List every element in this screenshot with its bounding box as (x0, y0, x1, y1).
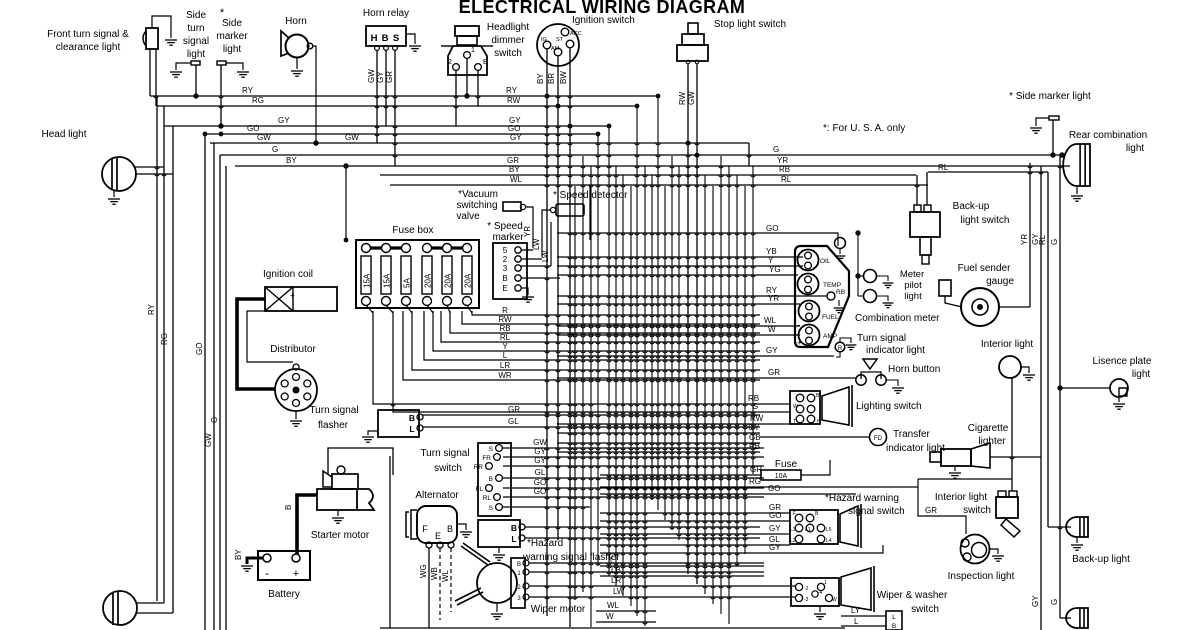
wire GR from flasher (423, 414, 760, 416)
svg-text:L1: L1 (805, 527, 811, 533)
svg-text:B: B (483, 59, 488, 66)
svg-text:flasher: flasher (318, 420, 349, 431)
svg-text:GY: GY (510, 133, 522, 142)
ground turn signal flasher (362, 437, 374, 442)
ground hazard flasher (498, 547, 500, 553)
svg-text:RG: RG (749, 477, 761, 486)
svg-text:GY: GY (1031, 595, 1040, 607)
svg-text:WB: WB (430, 567, 439, 580)
wiper motor (477, 563, 517, 603)
wire L (600, 565, 764, 567)
svg-text:Inspection light: Inspection light (948, 571, 1015, 582)
svg-text:GO: GO (766, 224, 778, 233)
svg-text:1: 1 (517, 571, 521, 577)
wire ignition BY (546, 49, 548, 616)
svg-text:RR: RR (474, 464, 484, 471)
svg-text:GO: GO (195, 343, 204, 355)
svg-text:GY: GY (278, 116, 290, 125)
wire RG (600, 486, 918, 488)
wire battery minus to ground (thick) (247, 558, 263, 564)
back-up light (1066, 517, 1088, 537)
wire G to lighting switch (600, 411, 790, 413)
wire W to amp gauge (557, 334, 800, 336)
wire rear side marker to ground (1036, 118, 1049, 126)
svg-text:GW: GW (345, 133, 359, 142)
svg-text:Cigarette: Cigarette (968, 423, 1009, 434)
wire G vertical right (1059, 155, 1061, 618)
wire vertical (608, 126, 610, 576)
wire head light feeds (135, 166, 164, 168)
wire G vertical 2 (225, 166, 227, 630)
wire dimmer pin2 (455, 70, 457, 126)
svg-text:GR: GR (508, 405, 520, 414)
ground distributor (295, 411, 297, 419)
rear combination light (top) (1063, 144, 1090, 186)
wire cigarette lighter (990, 456, 1041, 458)
svg-text:RB: RB (499, 324, 510, 333)
wire Y to oil gauge (557, 265, 803, 267)
wire side turn signal to ground (176, 63, 191, 70)
svg-text:warning signal flasher: warning signal flasher (522, 552, 620, 563)
wire vertical (712, 186, 714, 604)
ground cigarette lighter (954, 466, 956, 471)
svg-text:B: B (517, 562, 521, 568)
fuse terminal top 6 (463, 244, 472, 253)
svg-text:BW: BW (559, 71, 568, 84)
svg-text:GL: GL (535, 468, 546, 477)
wire YR to fuel gauge (557, 303, 800, 305)
svg-text:gauge: gauge (986, 276, 1014, 287)
head light (left) (102, 157, 136, 191)
svg-text:Combination meter: Combination meter (855, 313, 940, 324)
wire vertical (644, 166, 646, 626)
wiper motor lever 2 (455, 588, 481, 601)
wire speed marker pin3 stub (521, 265, 551, 267)
fuse 15A #1 (361, 256, 371, 294)
svg-text:clearance light: clearance light (56, 42, 121, 53)
svg-text:L3: L3 (790, 527, 796, 533)
svg-text:*Hazard warning: *Hazard warning (825, 493, 899, 504)
fuse terminal top 5 (443, 244, 452, 253)
crossing hops (154, 96, 1062, 624)
wire horn relay S (GR) (394, 50, 396, 166)
ground rear side marker (1030, 128, 1042, 133)
wire GB (557, 442, 760, 444)
svg-text:valve: valve (456, 211, 480, 222)
wire horn relay B (GY) (385, 50, 387, 126)
svg-text:BR: BR (547, 73, 556, 84)
wire GO from turn signal switch (503, 496, 764, 498)
svg-text:BY: BY (536, 73, 545, 84)
svg-text:WL: WL (764, 316, 777, 325)
svg-text:GW: GW (533, 438, 547, 447)
svg-text:G: G (1050, 239, 1059, 245)
wiper washer switch knob (841, 568, 871, 610)
svg-text:GO: GO (769, 511, 781, 520)
svg-text:light: light (1126, 143, 1145, 154)
svg-text:Side: Side (186, 10, 206, 21)
wire alternator B to ground (457, 524, 466, 530)
svg-text:F: F (422, 524, 428, 534)
wire turn signal switch pin S2 (503, 506, 590, 508)
wire WL to amp gauge (557, 325, 800, 327)
svg-text:RB: RB (836, 289, 845, 296)
svg-text:+: + (293, 568, 299, 580)
wire bus GW/GY (210, 142, 749, 144)
lisence plate light (1110, 379, 1128, 397)
lighting switch knob (822, 387, 849, 425)
svg-text:GY: GY (748, 423, 760, 432)
svg-text:L: L (503, 351, 508, 360)
wire GO vertical (204, 134, 206, 630)
svg-text:RL: RL (938, 163, 949, 172)
svg-text:20A: 20A (463, 273, 472, 288)
svg-text:E: E (435, 531, 441, 541)
wire WG from alternator (428, 548, 430, 628)
wire horn relay to ground (406, 34, 415, 44)
wire battery to ignition coil (thick) (237, 299, 275, 389)
inspection light (961, 535, 990, 564)
svg-text:RY: RY (506, 86, 518, 95)
wire LR from fuse box (412, 311, 760, 370)
svg-text:switch: switch (963, 505, 991, 516)
svg-text:E: E (502, 284, 507, 293)
wire GR to fuse (600, 474, 761, 476)
speed marker (493, 243, 527, 299)
svg-text:RG: RG (252, 96, 264, 105)
wire vertical (657, 96, 659, 510)
svg-text:W: W (832, 597, 837, 603)
wire L bottom (841, 625, 886, 627)
svg-text:Rear combination: Rear combination (1069, 130, 1147, 141)
svg-text:indicator light: indicator light (866, 345, 925, 356)
lighting switch (790, 391, 820, 424)
svg-text:W: W (793, 404, 798, 410)
meter pilot light 2 (864, 290, 877, 303)
svg-text:WG: WG (419, 564, 428, 578)
svg-text:YR: YR (1020, 234, 1029, 245)
svg-text:Fuse box: Fuse box (392, 225, 433, 236)
wire L from fuse box (424, 311, 760, 360)
wire GW from turn signal switch (503, 447, 764, 449)
wire wiper motor pin 1 (529, 571, 764, 573)
svg-text:GW: GW (687, 91, 696, 105)
svg-text:3: 3 (503, 264, 508, 273)
svg-text:L: L (511, 534, 516, 544)
ignition coil (265, 287, 337, 311)
fuse 5A #3 (401, 256, 411, 294)
wire RY to meter (557, 295, 827, 297)
wire vertical (744, 186, 746, 554)
svg-text:S: S (489, 446, 494, 453)
turn signal flasher (378, 410, 419, 437)
svg-text:2: 2 (448, 59, 452, 66)
svg-text:W: W (606, 612, 614, 621)
svg-text:GO: GO (247, 124, 259, 133)
svg-text:G: G (1050, 599, 1059, 605)
wire stop light GW (696, 64, 698, 584)
turn signal indicator light (835, 342, 845, 352)
svg-text:15A: 15A (362, 273, 371, 288)
svg-text:GL: GL (508, 417, 519, 426)
svg-text:B: B (382, 33, 389, 44)
rear combination light (bottom) (1066, 608, 1088, 628)
svg-text:FD: FD (874, 436, 883, 442)
wire interior light down (1011, 378, 1013, 491)
svg-text:L5: L5 (826, 527, 832, 533)
wire W bottom (596, 621, 656, 623)
svg-text:GR: GR (385, 71, 394, 83)
fuse terminal bottom 2 (382, 297, 391, 306)
svg-text:RL: RL (483, 495, 492, 502)
ground alternator (460, 532, 472, 537)
svg-text:Y: Y (502, 342, 508, 351)
svg-text:H: H (371, 33, 378, 44)
ground horn relay (409, 46, 421, 51)
svg-text:L: L (892, 614, 896, 621)
ground starter motor (337, 511, 339, 516)
svg-text:YR: YR (523, 226, 532, 237)
fuse terminal top 1 (362, 244, 371, 253)
svg-text:B: B (284, 505, 293, 510)
svg-text:signal: signal (183, 36, 209, 47)
svg-text:*Vacuum: *Vacuum (458, 189, 498, 200)
wire flasher to ground (368, 431, 378, 435)
svg-text:Back-up light: Back-up light (1072, 554, 1130, 565)
wire to bottom lamp (1060, 617, 1071, 619)
svg-text:-4: -4 (818, 590, 823, 596)
svg-text:Lisence plate: Lisence plate (1093, 356, 1152, 367)
wire GY below hazard switch (600, 545, 883, 553)
wire fuse outputs fan (366, 305, 373, 313)
fuse terminal top 4 (423, 244, 432, 253)
ground rear combination light (1076, 187, 1078, 194)
wire GW vertical (213, 143, 215, 630)
svg-text:*: For U. S. A. only: *: For U. S. A. only (823, 123, 905, 134)
starter motor solenoid (332, 474, 358, 489)
fuse 15A #2 (381, 256, 391, 294)
wire GY vertical (172, 126, 174, 613)
svg-text:LR: LR (611, 576, 621, 585)
wiper and washer switch (791, 578, 839, 606)
svg-text:TEMP: TEMP (823, 282, 841, 289)
wire WR from fuse box (403, 311, 760, 380)
wire speed detector (542, 210, 550, 257)
wire speed marker pin5 (521, 249, 533, 251)
ground inspection light (989, 549, 998, 554)
svg-text:WR: WR (498, 371, 512, 380)
svg-text:IG: IG (541, 37, 547, 43)
ground wiper washer switch (819, 606, 821, 612)
svg-text:RY: RY (242, 86, 254, 95)
ground horn (296, 58, 298, 69)
svg-text:GY: GY (769, 524, 781, 533)
svg-text:Meter: Meter (900, 269, 924, 280)
wire hazard flasher B (525, 526, 760, 528)
interior light switch (996, 497, 1018, 518)
svg-text:G: G (752, 402, 758, 411)
svg-text:GO: GO (534, 478, 546, 487)
fuel warning lamp RB (827, 292, 835, 300)
ground side marker (front) (237, 72, 249, 77)
wire to back-up light (1048, 526, 1071, 528)
rear connector (886, 611, 902, 630)
svg-text:Wiper & washer: Wiper & washer (877, 590, 948, 601)
wire front turn signal to ground (152, 16, 171, 38)
wire G vertical (219, 155, 221, 630)
svg-text:-: - (288, 303, 291, 313)
hazard warning signal flasher (478, 520, 520, 547)
svg-text:R: R (838, 346, 843, 352)
svg-text:Horn button: Horn button (888, 364, 940, 375)
svg-text:2: 2 (517, 585, 521, 591)
wire battery to starter (thick) (297, 495, 317, 554)
meter pilot light 1 (864, 270, 877, 283)
wire vertical (752, 166, 754, 474)
wire RL from fuse box (441, 311, 760, 342)
svg-text:Lighting switch: Lighting switch (856, 401, 922, 412)
wire head light bottom feeds (136, 602, 164, 604)
svg-text:RW: RW (507, 96, 521, 105)
wire interior light feed (918, 478, 1012, 480)
wire loop over starter (328, 448, 393, 475)
svg-text:Horn: Horn (285, 16, 307, 27)
svg-text:pilot: pilot (904, 280, 922, 291)
svg-text:F: F (793, 511, 796, 517)
wire vertical (636, 106, 638, 616)
wire RW to lighting switch (557, 423, 790, 425)
svg-text:FR: FR (482, 455, 491, 462)
meter illumination light (835, 238, 846, 249)
svg-text:turn: turn (187, 23, 204, 34)
svg-text:2: 2 (503, 255, 508, 264)
wire bus G (220, 154, 1065, 156)
wire bus RG/RW (157, 105, 637, 107)
svg-text:Fuel sender: Fuel sender (958, 263, 1011, 274)
ground speed marker (522, 297, 534, 302)
wire WL into fuse box (589, 185, 591, 240)
svg-text:GW: GW (367, 69, 376, 83)
wire GY to transfer indicator (557, 432, 760, 434)
ground side turn signal (170, 72, 182, 77)
svg-text:B: B (892, 623, 896, 630)
svg-text:Distributor: Distributor (270, 344, 316, 355)
wire vertical (574, 186, 576, 600)
fuse 20A #4 (422, 256, 432, 294)
wire dimmer pin1 (466, 58, 468, 96)
svg-text:-3: -3 (804, 597, 809, 603)
wire RL vertical right (1047, 172, 1049, 527)
svg-text:RL: RL (781, 175, 792, 184)
svg-text:GR: GR (925, 506, 937, 515)
wire fuse output to flasher area (373, 311, 600, 404)
svg-text:LR: LR (500, 361, 510, 370)
front turn signal lamp (146, 28, 158, 49)
wire ignition BW (569, 48, 571, 627)
wire bus WL/RL (390, 184, 928, 186)
wire vertical (720, 156, 722, 614)
svg-text:light: light (904, 291, 922, 302)
svg-text:Transfer: Transfer (893, 429, 931, 440)
svg-text:* Side marker light: * Side marker light (1009, 91, 1091, 102)
svg-text:B: B (489, 476, 493, 483)
wire GY from turn signal switch (503, 465, 764, 467)
svg-text:BY: BY (509, 165, 520, 174)
wire back-up switch pins (916, 175, 918, 205)
svg-text:GW: GW (257, 133, 271, 142)
wire WL bottom (596, 610, 656, 612)
side turn signal connector (191, 61, 200, 65)
wire wiper motor pin B (529, 562, 764, 564)
svg-text:3: 3 (517, 596, 521, 602)
svg-text:FL: FL (475, 486, 483, 493)
wire vertical (597, 134, 599, 566)
wire vertical (704, 175, 706, 594)
wire GO branch to meter pilot (857, 233, 859, 296)
wire RW from fuse box (462, 311, 760, 324)
svg-text:marker: marker (492, 232, 524, 243)
svg-text:Battery: Battery (268, 589, 300, 600)
wire vertical (678, 166, 680, 540)
svg-text:GY: GY (376, 71, 385, 83)
wire RL to back-up lights (928, 171, 1048, 173)
svg-text:GW: GW (204, 433, 213, 447)
side marker connector (rear) (1049, 116, 1059, 120)
svg-text:Y: Y (768, 256, 774, 265)
svg-text:FUEL: FUEL (822, 314, 839, 321)
wire YG to temp gauge (557, 274, 798, 276)
ground lisence plate light (1118, 397, 1120, 402)
svg-text:S: S (393, 33, 399, 44)
transfer indicator light (870, 429, 887, 446)
wire side marker down (220, 65, 222, 126)
ground front turn signal (165, 40, 177, 45)
svg-text:G: G (272, 145, 278, 154)
svg-text:light: light (1132, 369, 1151, 380)
wire vertical (630, 186, 632, 606)
wire vertical (651, 175, 653, 500)
svg-text:RL: RL (1038, 234, 1047, 245)
fuse terminal bottom 1 (362, 297, 371, 306)
svg-text:Fuse: Fuse (775, 459, 798, 470)
wire RB to lighting switch (600, 403, 790, 405)
svg-text:RW: RW (750, 414, 764, 423)
ground back-up light (1076, 538, 1078, 543)
wire RG vertical (163, 106, 165, 603)
svg-text:15A: 15A (382, 273, 391, 288)
fuse terminal bottom 3 (402, 297, 411, 306)
wire Y from fuse box (433, 311, 760, 351)
wire YR vertical right (1029, 163, 1031, 307)
wire GL to hazard switch (600, 544, 790, 546)
fuse terminal top 2 (382, 244, 391, 253)
svg-text:Horn relay: Horn relay (363, 8, 409, 19)
svg-text:Headlight: Headlight (487, 22, 529, 33)
wire GY to hazard switch (600, 533, 790, 535)
svg-text:10A: 10A (775, 473, 788, 480)
wire horn output (313, 46, 316, 143)
wire vertical (582, 156, 584, 592)
distributor (275, 369, 317, 411)
svg-text:BY: BY (234, 549, 243, 560)
svg-text:Head light: Head light (41, 129, 86, 140)
alternator (417, 506, 457, 543)
svg-text:light switch: light switch (961, 215, 1010, 226)
turn signal switch (478, 443, 511, 516)
svg-text:RL: RL (500, 333, 511, 342)
svg-text:R: R (502, 306, 508, 315)
wire YB to oil gauge (557, 256, 803, 258)
